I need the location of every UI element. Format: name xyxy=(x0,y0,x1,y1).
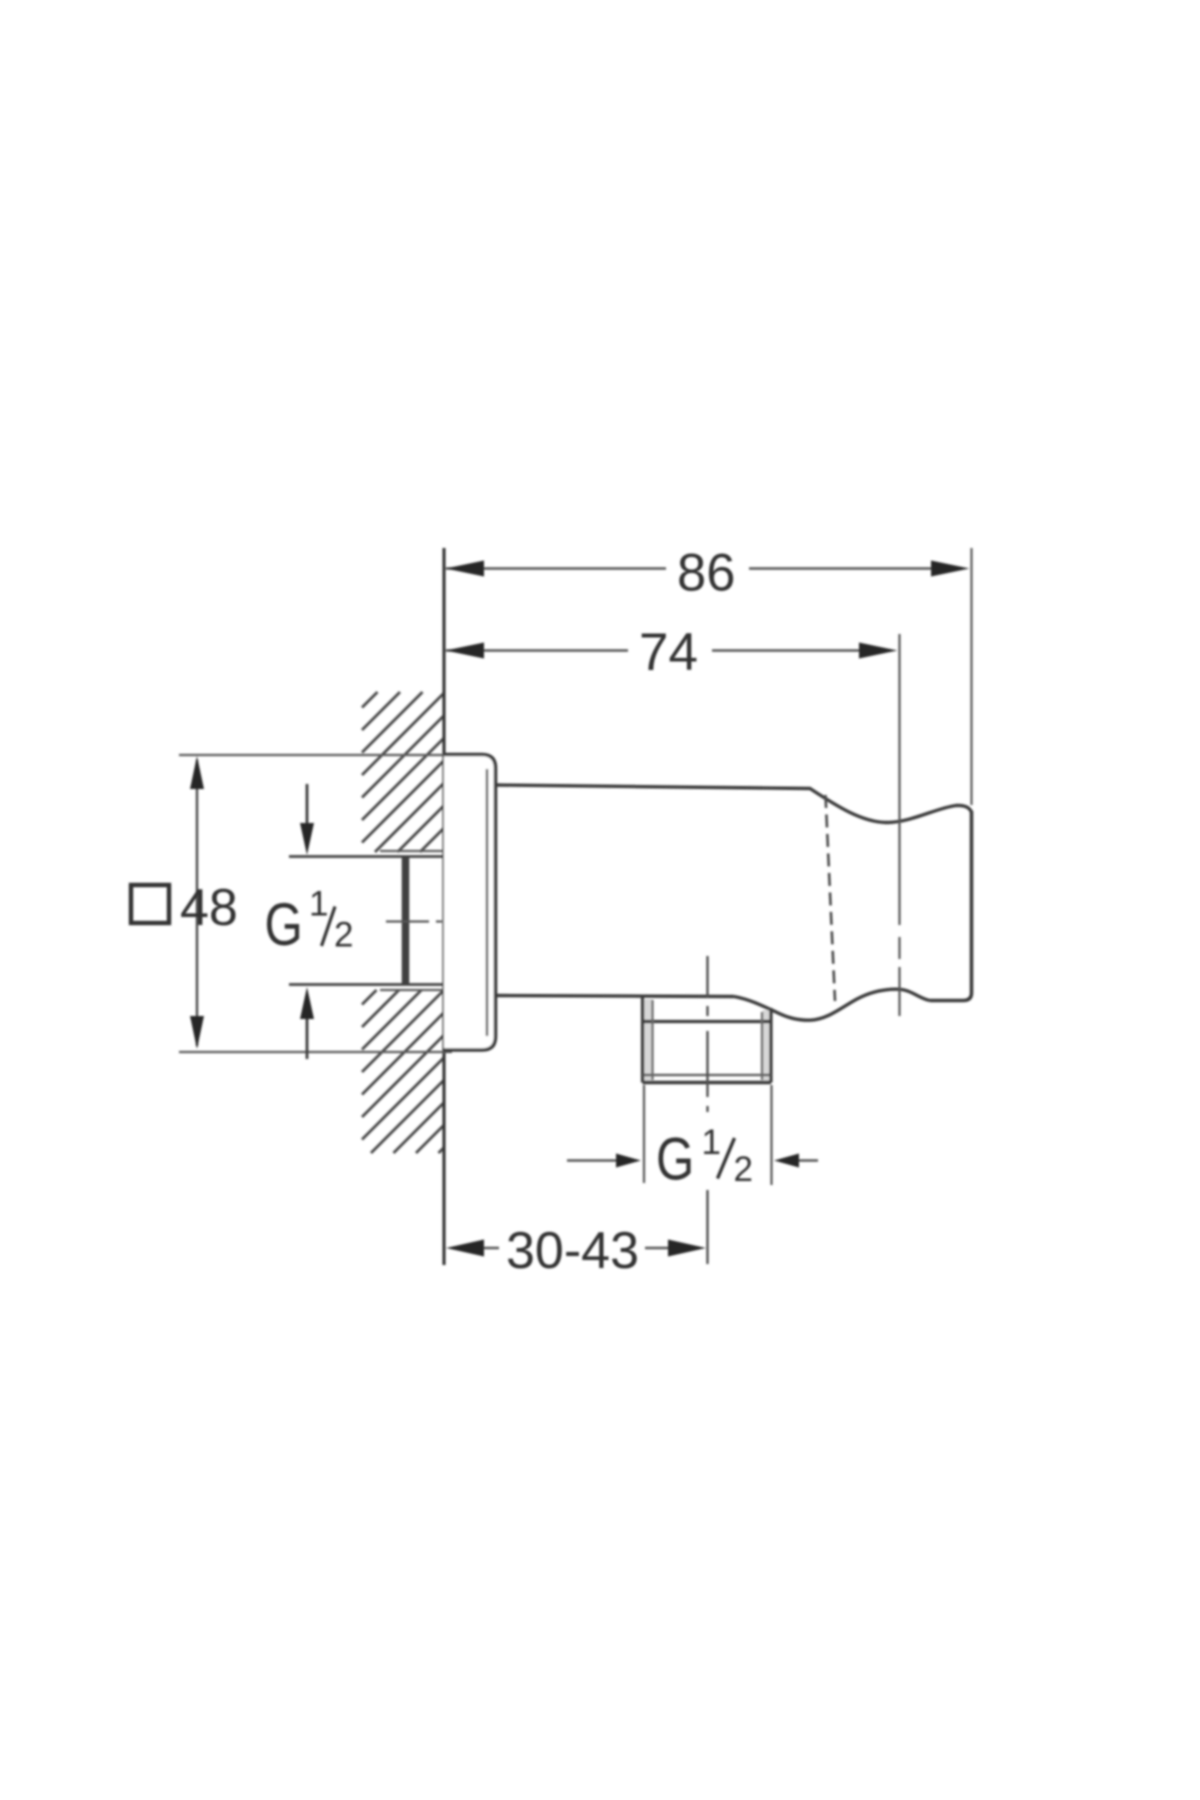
svg-text:2: 2 xyxy=(334,916,353,955)
svg-text:G: G xyxy=(656,1125,694,1193)
svg-text:30-43: 30-43 xyxy=(506,1222,639,1280)
svg-text:48: 48 xyxy=(180,879,238,937)
svg-text:1: 1 xyxy=(309,885,328,924)
svg-text:G: G xyxy=(265,890,303,958)
svg-text:1: 1 xyxy=(702,1123,721,1162)
svg-text:2: 2 xyxy=(734,1150,753,1189)
svg-text:74: 74 xyxy=(639,623,698,682)
svg-text:86: 86 xyxy=(677,544,735,603)
